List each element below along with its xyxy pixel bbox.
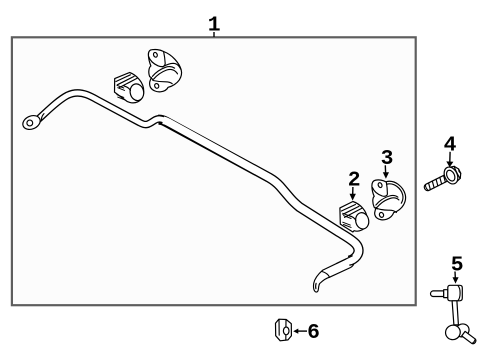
callout 2	[348, 169, 361, 201]
stabilizer bar	[21, 93, 359, 292]
bottom stud	[462, 331, 477, 344]
bushing 2	[340, 202, 370, 233]
bracket (upper, duplicate of 3)	[148, 50, 181, 92]
callout 3	[381, 147, 394, 179]
svg-text:3: 3	[381, 147, 394, 171]
callout 5	[451, 254, 464, 284]
bar tube	[158, 120, 358, 261]
bar left eye end	[21, 113, 44, 132]
svg-text:2: 2	[348, 169, 361, 193]
bolt 4	[421, 163, 464, 196]
rod	[452, 301, 458, 325]
svg-text:6: 6	[307, 321, 320, 345]
bottom housing	[453, 321, 471, 339]
nut 6	[276, 319, 292, 341]
enclosure box	[12, 37, 416, 305]
top housing	[448, 285, 463, 301]
left stud	[431, 291, 444, 297]
svg-text:5: 5	[451, 254, 464, 278]
bracket 3	[372, 180, 406, 220]
bushing (upper, duplicate of 2)	[115, 73, 146, 103]
callout 4	[444, 134, 457, 168]
link 5	[431, 285, 477, 344]
paddle creases	[322, 272, 330, 278]
callout 1	[208, 13, 221, 37]
bar right paddle blade	[314, 255, 355, 292]
blade top edge redraw at loop exit	[337, 256, 353, 264]
callout 6	[293, 321, 320, 345]
